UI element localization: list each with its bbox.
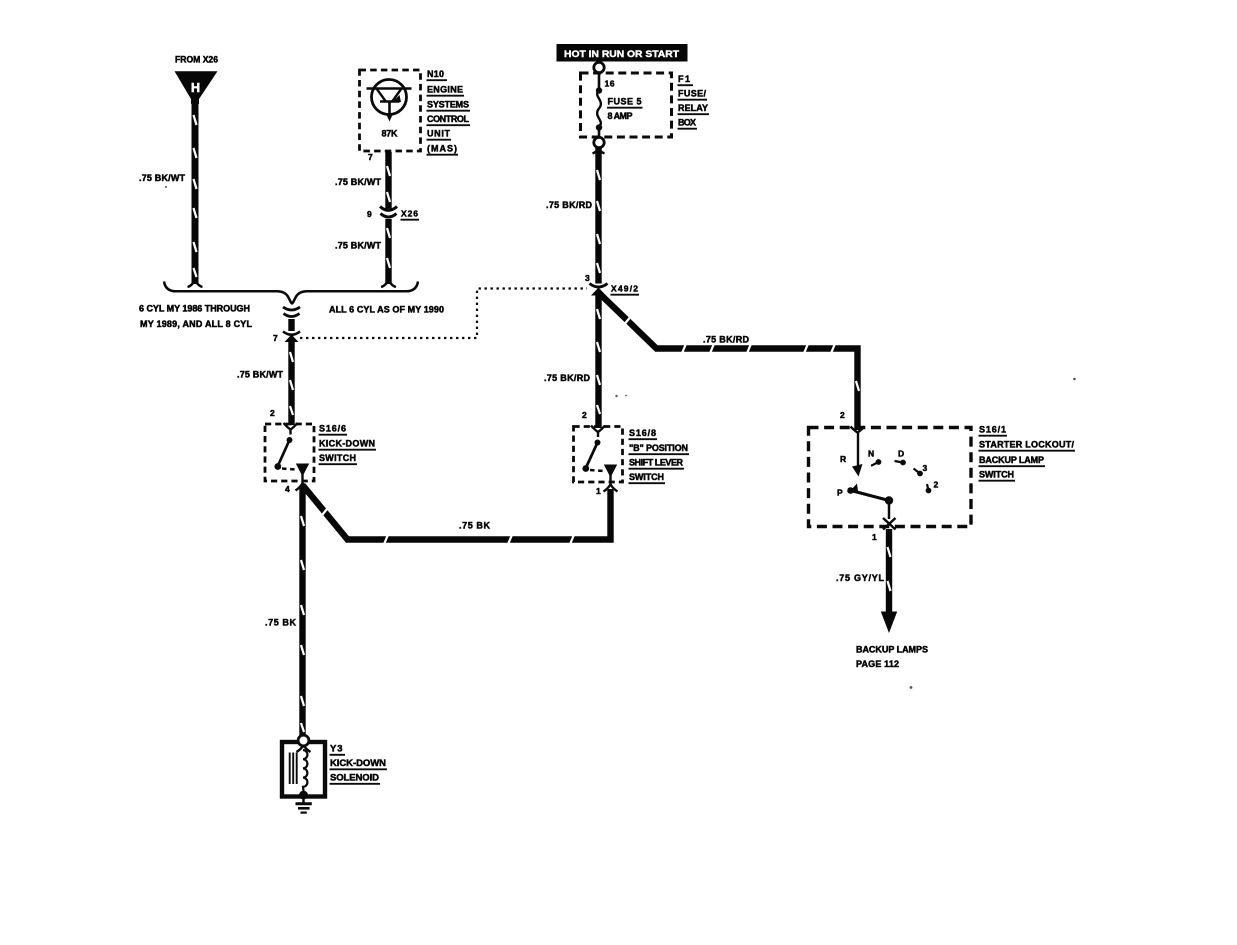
svg-text:X49/2: X49/2 xyxy=(611,284,638,294)
solenoid coil winding xyxy=(303,750,307,791)
svg-text:4: 4 xyxy=(285,484,290,494)
svg-text:SHIFT LEVER: SHIFT LEVER xyxy=(629,458,684,468)
wire from X26 flag down to brace, .75 BK/WT xyxy=(188,100,203,287)
junction dot at Y3 bottom xyxy=(299,791,308,800)
svg-text:6 CYL MY 1986 THROUGH: 6 CYL MY 1986 THROUGH xyxy=(139,304,250,314)
starter lockout / backup lamp switch S16/1 dashed box xyxy=(809,428,972,527)
svg-text:BOX: BOX xyxy=(678,118,696,128)
svg-text:UNIT: UNIT xyxy=(427,129,451,139)
note BACKUP LAMPS PAGE 112 xyxy=(856,645,928,670)
svg-text:2: 2 xyxy=(934,480,939,490)
svg-text:N10: N10 xyxy=(427,69,444,79)
wire S16/1 pin1 to backup lamps, .75 GY/YL xyxy=(888,529,891,613)
svg-text:ENGINE: ENGINE xyxy=(427,85,463,95)
N10 unit label block xyxy=(427,69,471,155)
pin 1 of shift lever switch xyxy=(604,475,618,492)
svg-text:F1: F1 xyxy=(678,74,690,84)
svg-text:KICK-DOWN: KICK-DOWN xyxy=(330,758,386,769)
position contact P xyxy=(837,484,858,498)
svg-text:.75 BK/WT: .75 BK/WT xyxy=(139,173,186,183)
svg-text:.75 BK/RD: .75 BK/RD xyxy=(546,200,593,210)
svg-text:RELAY: RELAY xyxy=(678,103,708,113)
shift lever switch S16/8 dashed box xyxy=(574,427,623,483)
connector below brace (female half) xyxy=(283,307,300,317)
svg-text:3: 3 xyxy=(585,273,590,283)
svg-text:S16/1: S16/1 xyxy=(979,425,1006,435)
svg-text:PAGE 112: PAGE 112 xyxy=(856,659,899,669)
svg-text:.75 BK/RD: .75 BK/RD xyxy=(544,373,591,383)
svg-text:2: 2 xyxy=(840,410,845,420)
svg-text:FUSE 5: FUSE 5 xyxy=(608,97,642,107)
svg-text:CONTROL: CONTROL xyxy=(427,114,470,124)
F1 fuse/relay box label block xyxy=(678,74,710,129)
S16/8 switch label block xyxy=(629,428,690,483)
dotted option wire from pin7 connector to X49/2 xyxy=(300,289,587,339)
position contact N xyxy=(868,449,881,466)
svg-text:SWITCH: SWITCH xyxy=(629,472,664,482)
pin 4 of kick-down switch xyxy=(296,474,310,491)
kick-down switch contact symbol xyxy=(274,423,309,477)
svg-text:X26: X26 xyxy=(401,209,418,219)
svg-text:SOLENOID: SOLENOID xyxy=(330,773,379,784)
note 6 CYL MY 1986 THROUGH / MY 1989, AND ALL 8 CYL xyxy=(139,304,253,330)
svg-text:S16/8: S16/8 xyxy=(629,428,656,438)
svg-text:87K: 87K xyxy=(382,129,399,139)
svg-text:KICK-DOWN: KICK-DOWN xyxy=(319,439,375,449)
svg-text:P: P xyxy=(837,488,843,498)
svg-text:Y3: Y3 xyxy=(330,744,343,755)
svg-text:SWITCH: SWITCH xyxy=(319,453,356,463)
svg-text:.75 BK/RD: .75 BK/RD xyxy=(703,335,750,345)
svg-text:7: 7 xyxy=(368,152,373,162)
control unit N10 dashed box xyxy=(360,70,421,151)
wire between connector halves xyxy=(288,319,294,331)
position contact 2 xyxy=(926,480,939,494)
wire X49/2 to starter lockout switch, .75 BK/RD xyxy=(600,294,859,430)
svg-text:MY 1989, AND ALL 8 CYL: MY 1989, AND ALL 8 CYL xyxy=(140,319,253,329)
S16/6 switch label block xyxy=(319,424,377,465)
svg-text:FROM X26: FROM X26 xyxy=(175,55,218,65)
wire N10 pin7 down to X26 connector, .75 BK/WT xyxy=(387,152,390,209)
solenoid coil core lines xyxy=(290,753,297,785)
brace joining the two feeds xyxy=(164,282,418,304)
svg-text:7: 7 xyxy=(273,333,278,343)
wire X26 connector down to brace, .75 BK/WT xyxy=(381,219,396,287)
svg-text:3: 3 xyxy=(923,463,928,473)
kick-down switch S16/6 dashed box xyxy=(265,424,314,481)
terminal circle on top of Y3 xyxy=(298,735,309,746)
svg-text:.75 BK/WT: .75 BK/WT xyxy=(237,370,284,380)
scan specks xyxy=(165,186,1076,689)
svg-text:.75 BK: .75 BK xyxy=(265,618,297,628)
svg-text:S16/6: S16/6 xyxy=(319,424,346,434)
svg-text:1: 1 xyxy=(872,532,877,542)
svg-text:FUSE/: FUSE/ xyxy=(678,89,706,99)
link from P contact to output xyxy=(851,491,893,520)
off-page arrow to backup lamps xyxy=(881,612,897,634)
svg-text:.75 GY/YL: .75 GY/YL xyxy=(836,573,885,583)
Y3 solenoid label block xyxy=(330,744,388,784)
svg-text:"B" POSITION: "B" POSITION xyxy=(629,443,688,453)
svg-text:.75 BK: .75 BK xyxy=(459,521,491,531)
pin 1 of starter lockout switch (crossed connector mark) xyxy=(883,518,896,530)
svg-text:SYSTEMS: SYSTEMS xyxy=(427,100,469,110)
svg-text:1: 1 xyxy=(596,486,601,496)
svg-text:2: 2 xyxy=(582,410,587,420)
position contact 3 xyxy=(914,463,928,476)
wire kick-down pin4 to shift lever switch pin1, .75 BK xyxy=(303,485,611,544)
wire kick-down pin4 down to solenoid, .75 BK xyxy=(301,487,304,738)
svg-text:STARTER LOCKOUT/: STARTER LOCKOUT/ xyxy=(979,440,1074,450)
S16/1 switch label block xyxy=(979,425,1076,481)
svg-text:(MAS): (MAS) xyxy=(427,144,457,154)
node H: power feed flag FROM X26 xyxy=(175,55,219,105)
svg-text:N: N xyxy=(868,449,874,459)
shift lever switch contact symbol xyxy=(582,426,617,478)
svg-text:SWITCH: SWITCH xyxy=(979,470,1014,480)
svg-text:D: D xyxy=(898,449,904,459)
wire F1 down to X49/2, .75 BK/RD xyxy=(593,148,605,284)
svg-text:H: H xyxy=(191,81,200,95)
svg-text:.75 BK/WT: .75 BK/WT xyxy=(335,177,382,187)
svg-text:HOT IN RUN OR START: HOT IN RUN OR START xyxy=(564,49,679,59)
svg-text:16: 16 xyxy=(605,79,615,89)
connector X26, pin 9 xyxy=(380,207,397,218)
svg-text:BACKUP LAMPS: BACKUP LAMPS xyxy=(856,645,928,655)
svg-text:2: 2 xyxy=(270,408,275,418)
wire X49/2 down to shift lever switch, .75 BK/RD xyxy=(597,292,600,428)
svg-text:9: 9 xyxy=(367,209,372,219)
svg-text:BACKUP LAMP: BACKUP LAMP xyxy=(979,455,1044,465)
terminal circle below F1 xyxy=(594,137,604,147)
svg-text:R: R xyxy=(840,454,846,464)
transistor symbol inside N10 xyxy=(367,80,412,122)
connector pin 7 (male half) xyxy=(283,332,300,343)
rotary wiper arm xyxy=(851,427,865,477)
connector X49/2, pin 3 xyxy=(590,284,608,296)
svg-text:.75 BK/WT: .75 BK/WT xyxy=(335,241,382,251)
fuse label FUSE 5 / 8 AMP xyxy=(607,97,643,122)
fuse 5 element xyxy=(596,73,602,138)
solenoid Y3 box xyxy=(282,742,325,797)
terminal circle below banner xyxy=(594,62,604,72)
power banner HOT IN RUN OR START xyxy=(557,44,688,62)
ground below Y3 xyxy=(296,795,312,813)
svg-text:ALL 6 CYL AS OF MY 1990: ALL 6 CYL AS OF MY 1990 xyxy=(329,305,444,315)
wire pin7 connector down to kick-down switch, .75 BK/WT xyxy=(290,340,293,425)
position contact D xyxy=(895,449,906,466)
svg-text:8 AMP: 8 AMP xyxy=(608,111,633,121)
pin chevron inside Y3 xyxy=(297,746,311,753)
fuse/relay box F1 dashed outline xyxy=(581,73,672,137)
